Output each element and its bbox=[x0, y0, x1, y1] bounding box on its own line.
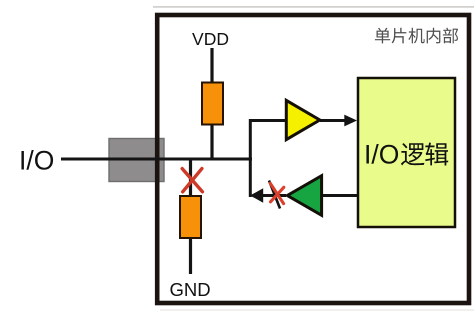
resistor R1 (pull-up) bbox=[202, 83, 223, 125]
wire: riser at node bbox=[249, 119, 252, 197]
resistor R2 (lower) bbox=[180, 196, 201, 238]
MCU boundary box bbox=[157, 15, 469, 303]
svg-text:GND: GND bbox=[169, 279, 210, 300]
arrowhead toward node bbox=[250, 188, 263, 202]
wire: VDD down to resistor bbox=[210, 48, 213, 84]
wire: green buffer input (from logic block) bbox=[323, 194, 357, 197]
wire: buffer input (to yellow) bbox=[249, 119, 287, 122]
wire: green buffer output to node bbox=[262, 194, 286, 197]
svg-text:I/O: I/O bbox=[364, 140, 399, 170]
pin pad (gray box) bbox=[109, 139, 164, 182]
svg-text:I/O: I/O bbox=[19, 145, 54, 175]
faint bottom scan line bbox=[160, 309, 474, 311]
red X over lower resistor wire bbox=[182, 169, 202, 192]
wire: lower resistor to GND bbox=[189, 237, 192, 274]
wire: I/O horizontal bbox=[61, 158, 252, 161]
red X over input path bbox=[270, 183, 284, 203]
wire: resistor to I/O line bbox=[210, 123, 213, 160]
svg-text:VDD: VDD bbox=[192, 29, 229, 49]
arrowhead into logic block bbox=[344, 115, 357, 127]
label 单片机内部 bbox=[375, 28, 458, 44]
input buffer (green triangle) bbox=[287, 176, 321, 216]
wire: yellow buffer output bbox=[320, 119, 346, 122]
I/O logic block bbox=[358, 78, 455, 227]
black stub under X2 bbox=[269, 181, 280, 209]
wire: I/O line down to lower resistor bbox=[189, 158, 192, 197]
faint top scan line bbox=[153, 6, 474, 8]
output buffer (yellow triangle) bbox=[286, 100, 320, 139]
